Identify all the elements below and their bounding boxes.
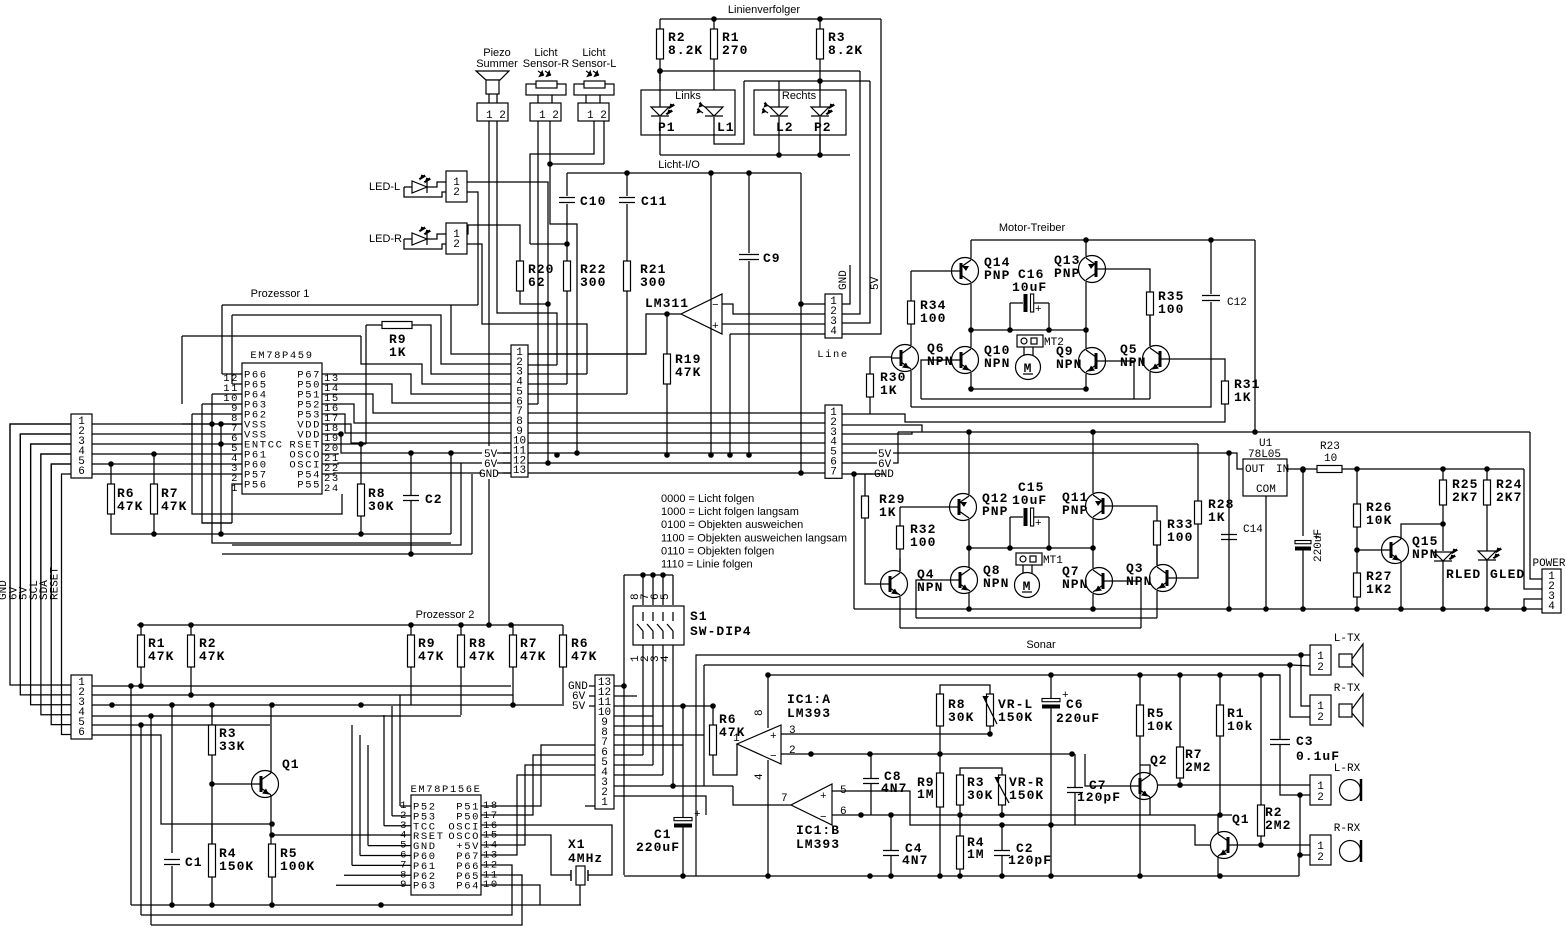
svg-text:8: 8 (754, 709, 766, 716)
wire R19 top (666, 314, 668, 354)
svg-text:100: 100 (920, 311, 946, 326)
value label R9 1K (389, 332, 407, 360)
resistor R2s (1258, 805, 1265, 836)
capacitor C10 (559, 198, 575, 203)
junction (1298, 652, 1304, 658)
svg-text:PNP: PNP (1062, 503, 1088, 518)
wire row10 right (614, 715, 653, 717)
wire VSS2 row (92, 433, 242, 435)
resistor R26 (1354, 504, 1361, 527)
svg-text:Q1: Q1 (282, 757, 300, 772)
svg-text:C12: C12 (1227, 297, 1247, 309)
wire Q11 down (1092, 519, 1094, 548)
svg-text:+: + (1035, 518, 1042, 530)
wire sonar rail 675 (768, 674, 1280, 676)
switch S1 SW-DIP4 (633, 606, 684, 645)
svg-text:L-TX: L-TX (1334, 633, 1361, 645)
wire v1300 to R-RX (1300, 795, 1310, 855)
value label VR-L 150K (998, 697, 1033, 725)
svg-text:1 2: 1 2 (486, 110, 506, 122)
junction (269, 902, 275, 908)
svg-text:GLED: GLED (1490, 567, 1525, 582)
junction (408, 450, 414, 456)
LED LED-L (412, 175, 430, 193)
wire Q8 base (916, 580, 950, 618)
value label R27 1K2 (1366, 569, 1392, 597)
svg-text:4N7: 4N7 (881, 781, 907, 796)
svg-text:Prozessor 2: Prozessor 2 (416, 609, 475, 621)
junction (1048, 873, 1054, 879)
wire P1 bottom (659, 117, 661, 155)
wire R4 bottom (211, 877, 213, 905)
wire LM311 out to row1 (528, 314, 681, 354)
junction (218, 531, 224, 537)
wire P67 route (481, 775, 595, 855)
svg-text:47K: 47K (117, 499, 143, 514)
svg-text:10K: 10K (1366, 513, 1392, 528)
wire C2s bottom (1001, 856, 1003, 876)
svg-text:Q2: Q2 (1150, 753, 1168, 768)
wire IN to R23 (1287, 468, 1317, 470)
resistor R9s (937, 773, 944, 807)
wire H244 (530, 243, 567, 245)
value label R5 10K (1147, 706, 1173, 734)
wire sensorL 1 down (530, 121, 594, 244)
wire R7 top (512, 625, 514, 635)
wire P1 left pin P64 (212, 393, 242, 395)
junction (798, 301, 804, 307)
junction (545, 460, 551, 466)
wire R20 bottom (520, 291, 548, 304)
svg-text:+: + (1035, 304, 1042, 316)
wire C7 bottom (1074, 793, 1076, 825)
junction (765, 873, 771, 879)
wire right edge down (1254, 240, 1256, 432)
potentiometer VR-R (995, 775, 1009, 805)
connector LED-R connector (446, 223, 467, 254)
svg-text:4: 4 (1548, 601, 1555, 613)
junction (999, 822, 1005, 828)
wire GND down (853, 474, 855, 609)
junction (708, 452, 714, 458)
wire R33 bottom to Q3 (1156, 545, 1158, 565)
wire 730 down (729, 334, 731, 455)
value label VR-R 150K (1009, 775, 1044, 803)
junction (999, 873, 1005, 879)
junction (888, 812, 894, 818)
junction (269, 832, 275, 838)
wire vertical 711 (710, 173, 712, 455)
value label R8 30K (368, 486, 394, 514)
wire C1s bottom (682, 826, 684, 876)
wire P52 to row8 (322, 404, 511, 423)
wire R1s top (1219, 675, 1221, 705)
wire bus SCL (41, 454, 71, 715)
junction (1484, 466, 1490, 472)
wire bus 5V (31, 444, 71, 705)
wire C16 right (1034, 302, 1049, 304)
value label R35 100 (1158, 289, 1184, 317)
wire C11 top (626, 173, 628, 196)
motor MT2 terminals (1017, 335, 1043, 347)
connector sensor R connector (530, 103, 561, 121)
svg-text:10: 10 (1324, 453, 1337, 465)
wire 6v stub (842, 462, 877, 464)
wire U3 pin P61 (352, 864, 411, 866)
wire R6 bottom (562, 667, 564, 706)
microphone R-RX (1340, 840, 1362, 862)
wire +5V route (481, 765, 595, 845)
svg-text:X1: X1 (568, 837, 586, 852)
resistor R34 (908, 301, 915, 324)
junction (1297, 852, 1303, 858)
resistor R1 (138, 635, 145, 667)
wire v472 GND (471, 474, 473, 554)
junction (358, 441, 364, 447)
wire R3 top (819, 19, 821, 29)
capacitor C11 (619, 198, 635, 203)
junction (1048, 672, 1054, 678)
svg-text:LM311: LM311 (645, 296, 689, 311)
resistor R2 (188, 635, 195, 667)
svg-text:7: 7 (830, 466, 837, 478)
wire row11 5V (528, 452, 825, 454)
wire row2 p2 (92, 694, 513, 696)
svg-text:6: 6 (78, 727, 85, 739)
wire R4 top (211, 824, 213, 844)
junction (554, 452, 560, 458)
svg-text:R-TX: R-TX (1334, 683, 1361, 695)
wire bus 5V upper (31, 444, 71, 600)
wire rail 432 (898, 431, 1530, 433)
junction (1007, 327, 1013, 333)
wire P53 to row9 (322, 414, 511, 433)
svg-text:C9: C9 (763, 251, 781, 266)
wire Q12 base (900, 506, 949, 508)
resistor R21 (624, 261, 631, 291)
svg-text:30K: 30K (948, 710, 974, 725)
wire R28 bottom to Q3 base (1177, 524, 1198, 578)
junction (867, 873, 873, 879)
wire rail 71 (660, 70, 860, 72)
wire OSCO stub (322, 453, 338, 454)
wire bus 6V upper (20, 434, 71, 600)
capacitor C9 (739, 255, 759, 260)
wire R8 VR-L bridge (940, 685, 990, 694)
resistor R30 (867, 374, 874, 397)
svg-text:RLED: RLED (1446, 567, 1481, 582)
wire P56 down (232, 484, 242, 523)
wire Q1 left route (1075, 825, 1210, 845)
svg-text:8.2K: 8.2K (668, 43, 703, 58)
LED P2 (811, 104, 834, 116)
wire to R-TX p1 (1301, 655, 1310, 706)
IC U2 EM78P459 box (242, 363, 322, 494)
svg-text:NPN: NPN (1120, 355, 1146, 370)
wire Q1 e (1217, 856, 1219, 876)
wire Q14 emitter down (970, 284, 972, 330)
wire Q9 base link (1106, 361, 1134, 399)
wire Q8 c (968, 548, 970, 567)
svg-text:47K: 47K (469, 649, 495, 664)
junction (966, 545, 972, 551)
wire R8 top (360, 444, 362, 484)
capacitor C3 (1270, 740, 1290, 745)
wire to Line pin2 (842, 71, 860, 314)
junction (798, 470, 804, 476)
junction (508, 622, 514, 628)
svg-text:4: 4 (660, 655, 672, 662)
microphone L-RX (1340, 779, 1362, 801)
wire U3 pin P53 up (391, 706, 393, 816)
wire LED-L 1 route (467, 182, 548, 463)
transistor Q12 (950, 494, 977, 521)
junction (1048, 822, 1054, 828)
wire c16r down (1048, 303, 1050, 330)
svg-text:220uF: 220uF (1313, 529, 1325, 562)
wire L2 bottom (778, 117, 780, 155)
junction (574, 450, 580, 456)
wire ledl b (427, 182, 446, 187)
wire ledr a (427, 234, 446, 239)
wire sensor L pin2 (599, 95, 601, 103)
wire rail 609 (854, 608, 1229, 610)
IC U3 pin labels (400, 800, 499, 893)
wire R26 top (1356, 469, 1358, 504)
wire VR-R bottom (1001, 805, 1003, 815)
svg-text:1K: 1K (1234, 390, 1252, 405)
value label R3 30K (967, 775, 993, 803)
wire p1 gap (659, 71, 661, 81)
value label R30 1K (880, 370, 906, 398)
wire R19 bottom (666, 384, 668, 455)
wire COM down (1265, 496, 1267, 609)
wire Q14 top (970, 240, 972, 258)
junction (968, 327, 974, 333)
wire motor top rail (971, 239, 1255, 241)
junction (109, 702, 115, 708)
wire C6 top (1050, 675, 1052, 699)
wire c16l down (1009, 303, 1011, 330)
svg-text:C11: C11 (641, 194, 667, 209)
junction (1297, 792, 1303, 798)
svg-text:6: 6 (840, 806, 847, 818)
wire C6 bottom (1050, 707, 1052, 876)
IC U2 pin labels (223, 370, 340, 496)
svg-text:7: 7 (781, 793, 788, 805)
wire R35 bottom to Q5 (1149, 315, 1151, 346)
wire R27 bottom (1356, 597, 1358, 609)
wire C3 top (1261, 675, 1280, 739)
value label R1 47K (148, 636, 174, 664)
wire gnd stub (842, 473, 873, 475)
wire +in to Line3 (722, 323, 842, 325)
junction (680, 703, 686, 709)
svg-text:LM393: LM393 (787, 706, 831, 721)
wire R2 bottom (659, 59, 661, 71)
svg-text:IN: IN (1276, 464, 1289, 476)
svg-text:1M: 1M (917, 787, 935, 802)
wire S1 pin7 (652, 575, 654, 605)
wire to L-TX p2 (1292, 665, 1310, 666)
junction (966, 429, 972, 435)
junction (680, 873, 686, 879)
wire power pin3 (1524, 599, 1542, 609)
wire R5s bottom (1139, 736, 1141, 876)
svg-text:150K: 150K (1009, 788, 1044, 803)
wire row 845 (1238, 844, 1310, 846)
junction (1258, 842, 1264, 848)
wire sensor L pin1 (585, 95, 587, 103)
wire R34 top (910, 271, 912, 301)
wire ledl a (404, 186, 412, 188)
wire sonar rail 665 (704, 664, 1292, 666)
wire Q5 e (1149, 372, 1151, 399)
svg-text:0000 = Licht folgen: 0000 = Licht folgen (661, 493, 754, 505)
wire S1 p2 down (652, 645, 654, 765)
wire R5 bottom (271, 877, 273, 905)
junction (957, 812, 963, 818)
wire R32 bottom to Q4 (899, 549, 901, 571)
junction (138, 622, 144, 628)
wire v221 (220, 424, 222, 534)
junction (1300, 467, 1306, 473)
wire U3 pin TCC up (383, 715, 385, 826)
wire gnd join (854, 473, 885, 475)
resistor R3s (957, 775, 964, 805)
wire R1 bottom (140, 667, 142, 685)
svg-text:C14: C14 (1243, 524, 1263, 536)
svg-text:10uF: 10uF (1012, 493, 1047, 508)
wire GLED bottom (1486, 560, 1488, 609)
junction (128, 683, 134, 689)
svg-text:1110 = Linie folgen: 1110 = Linie folgen (661, 559, 753, 571)
wire Q12 down (968, 520, 970, 548)
svg-text:300: 300 (580, 275, 606, 290)
svg-text:3: 3 (789, 725, 796, 737)
value label R24 2K7 (1496, 477, 1522, 505)
svg-text:2: 2 (789, 745, 796, 757)
junction (1287, 662, 1293, 668)
wire Q10 c (970, 330, 972, 347)
resistor R35 (1147, 292, 1154, 315)
wire R25 top (1442, 469, 1444, 480)
wire P1 left pin P65 (232, 383, 242, 385)
transistor Q6 (892, 345, 919, 372)
label mask (482, 446, 503, 479)
transistor Q3 (1150, 565, 1177, 592)
wire C9 bottom (748, 261, 750, 455)
wire row 785 (1158, 784, 1310, 786)
wire -in to Line2 (722, 304, 842, 314)
svg-text:R23: R23 (1320, 441, 1340, 453)
resistor R2 (657, 29, 664, 59)
LED LED-R (412, 227, 430, 245)
wire left rail top (659, 19, 661, 29)
svg-text:P1: P1 (658, 120, 676, 135)
wire bus GND upper (10, 424, 71, 600)
wire U3 pin GND (368, 845, 411, 847)
transistor Q13 (1079, 256, 1106, 283)
resistor R9 (382, 322, 412, 329)
wire L2 top (778, 81, 780, 107)
wire Licht-IO right edge (800, 173, 802, 304)
wire C7 top (1074, 754, 1076, 787)
wire R3 down (819, 59, 821, 155)
wire U3 pin P62 (344, 874, 411, 876)
transistor Q4 (881, 571, 908, 598)
svg-text:C10: C10 (580, 194, 606, 209)
wire row5 stub (528, 393, 627, 395)
junction (1137, 873, 1143, 879)
svg-text:300: 300 (640, 275, 666, 290)
wire U3 pin P60 (360, 855, 411, 857)
wire R3s bottom (959, 805, 961, 815)
wire P1 left pin P62 (192, 413, 242, 415)
wire row4 conn1 (92, 453, 242, 455)
value label R7 2M2 (1185, 747, 1211, 775)
resistor R8s (937, 694, 944, 726)
wire R4s top (959, 815, 961, 836)
wire sensor R pin1 (537, 95, 539, 103)
value label R26 10K (1366, 500, 1392, 528)
resistor R3 (817, 29, 824, 59)
svg-text:5: 5 (660, 593, 672, 600)
wire GND stub (497, 472, 511, 474)
transistor Q10 (952, 347, 979, 374)
transistor Q2 (1131, 773, 1158, 800)
wire row13 right (614, 685, 624, 687)
wire row3 right (842, 432, 912, 434)
wire bus SDA (51, 464, 71, 725)
junction (817, 152, 823, 158)
value label R22 300 (580, 262, 606, 290)
wire Q15 emitter (1400, 561, 1402, 609)
svg-text:30K: 30K (368, 499, 394, 514)
junction (1252, 429, 1258, 435)
motor MT2 (1016, 355, 1041, 380)
junction (209, 702, 215, 708)
junction (151, 451, 157, 457)
wire row5 right (614, 764, 653, 766)
wire OUT jog (1229, 453, 1243, 469)
junction (1398, 606, 1404, 612)
wire Q13 top (1085, 240, 1087, 256)
wire R1 top (140, 625, 142, 635)
IC U3 EM78P156E box (411, 795, 481, 895)
wire Q11 top (1092, 432, 1094, 493)
svg-text:5V: 5V (870, 276, 882, 290)
wire S1 p1 down (642, 645, 644, 755)
wire R24 bottom (1486, 505, 1488, 551)
wire Q15 base (1357, 549, 1381, 551)
wire row13 GND (528, 472, 825, 474)
wire P54 to row13 (322, 473, 511, 474)
resistor R33 (1154, 521, 1161, 545)
wire R9 left down (365, 325, 367, 444)
wire S1 gnd down (623, 575, 625, 686)
wire row 523 link (202, 522, 232, 524)
wire S1 pin5 (672, 575, 674, 605)
svg-text:24: 24 (324, 483, 340, 495)
wire Q5 c (1149, 315, 1151, 346)
box Links (641, 90, 735, 135)
value label R7 47K (161, 486, 187, 514)
wire LED-L 2 route (467, 192, 478, 305)
resistor R28 (1195, 501, 1202, 524)
svg-text:−: − (820, 812, 827, 824)
wire Q14 base (911, 270, 952, 272)
